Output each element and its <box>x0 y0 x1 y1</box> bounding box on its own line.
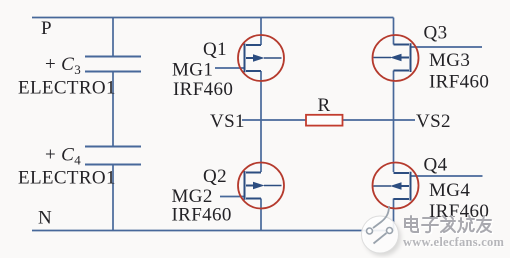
svg-text:N: N <box>38 208 52 229</box>
svg-text:Q3: Q3 <box>424 23 448 44</box>
svg-text:ELECTRO1: ELECTRO1 <box>18 78 116 99</box>
svg-text:IRF460: IRF460 <box>172 205 232 226</box>
svg-text:VS2: VS2 <box>416 111 451 132</box>
svg-text:MG4: MG4 <box>429 180 470 201</box>
svg-text:P: P <box>41 18 52 39</box>
svg-text:MG1: MG1 <box>172 60 213 81</box>
svg-text:Q1: Q1 <box>203 39 227 60</box>
svg-text:Q2: Q2 <box>203 166 227 187</box>
svg-text:IRF460: IRF460 <box>173 79 233 100</box>
svg-text:MG3: MG3 <box>429 50 470 71</box>
svg-text:IRF460: IRF460 <box>429 72 489 93</box>
svg-text:Q4: Q4 <box>424 155 448 176</box>
svg-text:www.elecfans.com: www.elecfans.com <box>403 235 505 249</box>
svg-text:R: R <box>318 95 331 116</box>
svg-text:ELECTRO1: ELECTRO1 <box>18 168 116 189</box>
svg-text:VS1: VS1 <box>210 111 245 132</box>
